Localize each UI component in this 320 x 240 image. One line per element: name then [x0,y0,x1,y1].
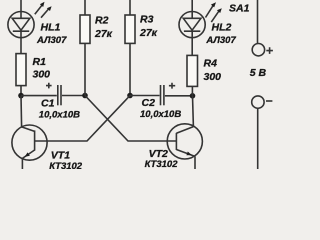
svg-text:C2: C2 [142,97,156,109]
svg-text:АЛ307: АЛ307 [205,35,236,46]
svg-text:SA1: SA1 [229,2,250,14]
capacitor C2 [161,85,164,105]
wire HL1 cathode to R1 [20,31,22,53]
svg-text:HL2: HL2 [212,22,232,34]
wire R1 to node A [20,86,22,96]
minus mark (supply) [266,100,272,102]
wire C2 to node D [165,95,193,97]
capacitor C1 [58,85,61,105]
resistor R1 [16,54,26,86]
wire HL2 cathode to R4 [191,31,193,55]
svg-text:27к: 27к [94,28,113,40]
svg-text:КТ3102: КТ3102 [49,161,83,169]
transistor VT2 [167,124,202,159]
wire node A to C1 [21,95,57,97]
svg-text:R1: R1 [33,56,47,68]
svg-text:10,0x10В: 10,0x10В [39,110,80,121]
wire VT1 emitter to bottom edge [21,158,23,169]
negative supply terminal [252,96,264,108]
HL2 light arrow 1 [206,2,217,17]
resistor R2 [80,15,90,43]
wire node A to VT1 collector [20,96,23,127]
node A junction [18,93,24,99]
wire R4 to node D [191,86,193,95]
resistor R4 [187,55,198,86]
node D junction [190,93,196,99]
wire positive terminal to top edge [257,0,259,44]
wire HL1 anode to top edge [20,0,22,18]
plus mark (supply) [266,47,273,54]
svg-text:R2: R2 [95,15,109,27]
node B junction [82,93,88,99]
wire node D to VT2 collector [192,96,195,127]
svg-text:VT1: VT1 [51,149,70,161]
HL2 light arrow 2 [211,8,222,22]
svg-text:R3: R3 [140,14,154,26]
svg-text:10,0x10В: 10,0x10В [140,109,181,120]
svg-text:300: 300 [33,68,51,80]
wire R3 to node C [129,43,131,95]
wire VT1 base to node C [35,96,130,142]
svg-text:C1: C1 [41,97,55,109]
svg-text:27к: 27к [139,27,158,39]
svg-text:АЛ307: АЛ307 [36,35,67,46]
HL1 light arrow 2 [41,6,52,18]
svg-text:5 В: 5 В [250,67,267,79]
plus polarity mark C2 [169,83,175,89]
wire R2 to top edge [84,0,86,15]
wire R2 to node B [84,43,86,95]
resistor R3 [125,15,135,43]
svg-text:R4: R4 [204,57,218,69]
transistor VT1 [12,125,47,160]
node C junction [127,93,133,99]
wire HL2 anode to top edge [191,0,193,18]
wire C1 to node B [62,95,85,97]
svg-text:HL1: HL1 [41,21,61,33]
HL1 light arrow 1 [35,2,45,14]
svg-text:КТ3102: КТ3102 [145,159,179,169]
wire VT2 base to node B [85,96,176,142]
wire node C to C2 [130,95,160,97]
LED HL1 [8,12,34,38]
wire R3 to top edge [129,0,131,15]
wire VT2 emitter to bottom edge [194,156,196,169]
svg-text:300: 300 [204,71,222,83]
LED HL2 [179,12,205,38]
positive supply terminal [252,44,264,56]
wire negative terminal to bottom edge [257,108,259,169]
plus polarity mark C1 [46,83,52,89]
